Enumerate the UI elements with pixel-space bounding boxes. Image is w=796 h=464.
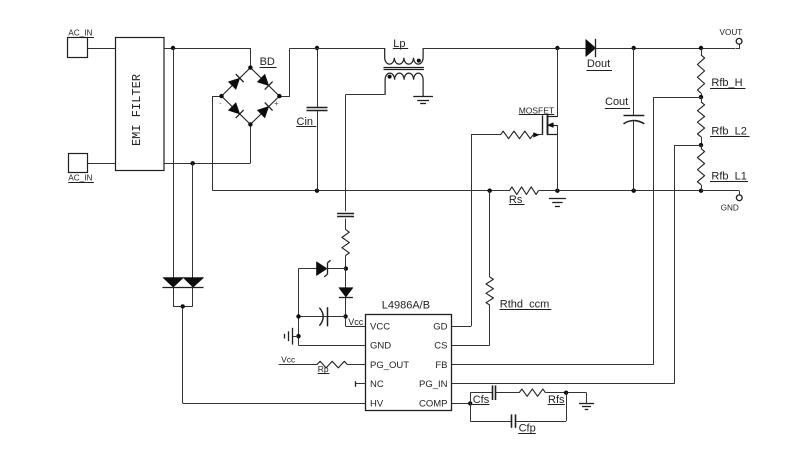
svg-text:Rp: Rp — [318, 364, 329, 374]
svg-text:-: - — [219, 99, 222, 108]
svg-text:Rfb_H: Rfb_H — [711, 77, 742, 89]
svg-text:AC_IN: AC_IN — [68, 174, 92, 183]
svg-text:COMP: COMP — [419, 399, 448, 410]
svg-text:MOSFET: MOSFET — [519, 105, 554, 115]
svg-text:Cfp: Cfp — [519, 423, 536, 435]
svg-text:PG_OUT: PG_OUT — [370, 360, 409, 371]
svg-text:PG_IN: PG_IN — [419, 379, 448, 390]
svg-text:GND: GND — [721, 203, 739, 212]
svg-text:CS: CS — [434, 341, 447, 352]
svg-text:Rfb_L2: Rfb_L2 — [711, 125, 746, 137]
svg-text:L4986A/B: L4986A/B — [382, 300, 430, 312]
svg-text:FB: FB — [435, 360, 447, 371]
svg-text:Vcc: Vcc — [348, 317, 364, 327]
svg-text:GD: GD — [433, 322, 447, 333]
svg-text:GND: GND — [370, 341, 391, 352]
svg-text:+: + — [274, 99, 279, 108]
svg-text:Vcc: Vcc — [281, 355, 296, 365]
svg-text:VCC: VCC — [370, 322, 390, 333]
svg-text:Dout: Dout — [587, 58, 610, 70]
svg-text:NC: NC — [370, 379, 384, 390]
svg-text:AC_IN: AC_IN — [68, 29, 92, 38]
svg-text:BD: BD — [260, 56, 275, 68]
svg-text:Cout: Cout — [605, 96, 628, 108]
svg-text:HV: HV — [370, 399, 384, 410]
svg-text:Rfb_L1: Rfb_L1 — [711, 170, 746, 182]
svg-text:Rthd_ccm: Rthd_ccm — [500, 298, 550, 310]
svg-text:EMI FILTER: EMI FILTER — [130, 74, 144, 146]
svg-text:VOUT: VOUT — [720, 28, 743, 37]
